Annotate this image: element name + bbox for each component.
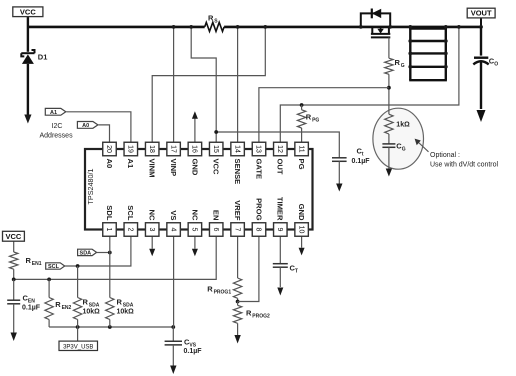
svg-text:3P3V_USB: 3P3V_USB: [63, 344, 93, 350]
svg-text:VINM: VINM: [148, 159, 157, 178]
svg-text:R: R: [306, 113, 312, 122]
svg-text:EN2: EN2: [62, 305, 72, 311]
svg-text:2: 2: [126, 228, 133, 232]
svg-text:10kΩ: 10kΩ: [117, 309, 135, 316]
svg-text:8: 8: [255, 228, 262, 232]
svg-text:0.1µF: 0.1µF: [22, 305, 41, 312]
svg-text:SENSE: SENSE: [233, 159, 242, 185]
svg-text:TPS2480/1: TPS2480/1: [86, 169, 95, 205]
svg-text:18: 18: [148, 145, 155, 153]
svg-text:10kΩ: 10kΩ: [83, 309, 101, 316]
svg-text:14: 14: [233, 145, 240, 153]
svg-text:R: R: [55, 300, 61, 309]
svg-text:R: R: [117, 298, 123, 307]
svg-text:CEN: CEN: [23, 294, 36, 305]
svg-text:15: 15: [212, 145, 219, 153]
svg-text:EN1: EN1: [32, 261, 42, 267]
svg-text:VOUT: VOUT: [471, 9, 492, 18]
svg-text:1kΩ: 1kΩ: [396, 122, 410, 129]
svg-text:7: 7: [233, 228, 240, 232]
svg-text:Addresses: Addresses: [40, 132, 74, 139]
svg-text:R: R: [246, 309, 252, 318]
svg-text:19: 19: [126, 145, 133, 153]
svg-text:SCL: SCL: [126, 205, 135, 221]
svg-text:A1: A1: [50, 110, 57, 116]
svg-text:Use with dV/dt control: Use with dV/dt control: [430, 161, 499, 168]
svg-text:5: 5: [191, 228, 198, 232]
svg-text:SDA: SDA: [80, 250, 92, 256]
svg-text:S: S: [214, 18, 218, 24]
svg-text:I2C: I2C: [52, 123, 63, 130]
svg-text:GATE: GATE: [254, 159, 263, 180]
svg-text:1: 1: [105, 228, 112, 232]
svg-text:10: 10: [297, 226, 304, 234]
svg-text:A0: A0: [105, 159, 114, 169]
svg-text:6: 6: [212, 228, 219, 232]
svg-text:GND: GND: [297, 204, 306, 221]
svg-text:NC: NC: [148, 210, 157, 221]
svg-text:CVS: CVS: [184, 337, 197, 348]
svg-text:GND: GND: [190, 159, 199, 176]
svg-text:13: 13: [255, 145, 262, 153]
svg-text:CT: CT: [290, 264, 298, 275]
svg-text:TIMER: TIMER: [276, 197, 285, 221]
svg-text:VCC: VCC: [6, 232, 22, 241]
svg-text:A1: A1: [126, 159, 135, 169]
svg-text:0.1µF: 0.1µF: [352, 158, 371, 165]
svg-text:Optional :: Optional :: [430, 152, 460, 159]
svg-text:3: 3: [148, 228, 155, 232]
svg-text:PROG: PROG: [254, 198, 263, 220]
svg-text:PG: PG: [312, 118, 319, 124]
svg-text:11: 11: [297, 145, 304, 152]
svg-text:12: 12: [276, 145, 283, 153]
svg-text:R: R: [83, 298, 89, 307]
svg-text:CO: CO: [489, 57, 498, 68]
svg-text:NC: NC: [190, 210, 199, 221]
svg-text:20: 20: [105, 145, 112, 153]
svg-text:R: R: [26, 256, 32, 265]
svg-text:A0: A0: [82, 123, 89, 129]
svg-text:0.1µF: 0.1µF: [184, 348, 203, 355]
svg-text:R: R: [208, 13, 214, 22]
svg-text:EN: EN: [212, 210, 221, 221]
svg-text:OUT: OUT: [276, 159, 285, 175]
svg-text:PROG2: PROG2: [252, 314, 270, 320]
svg-text:R: R: [207, 285, 213, 294]
svg-text:PROG1: PROG1: [214, 290, 232, 296]
svg-text:VCC: VCC: [212, 159, 221, 176]
svg-text:SCL: SCL: [48, 264, 60, 270]
svg-text:VCC: VCC: [20, 7, 36, 16]
svg-text:R: R: [395, 58, 401, 67]
svg-text:VINP: VINP: [169, 159, 178, 177]
svg-text:17: 17: [169, 145, 176, 153]
svg-text:9: 9: [276, 228, 283, 232]
svg-text:SDL: SDL: [105, 205, 114, 221]
svg-text:G: G: [401, 63, 405, 69]
svg-text:PG: PG: [297, 159, 306, 170]
svg-text:16: 16: [191, 145, 198, 153]
svg-text:VS: VS: [169, 210, 178, 220]
svg-text:4: 4: [169, 228, 176, 232]
svg-text:Ct: Ct: [357, 147, 364, 158]
svg-text:D1: D1: [38, 52, 48, 61]
svg-text:VREF: VREF: [233, 200, 242, 221]
